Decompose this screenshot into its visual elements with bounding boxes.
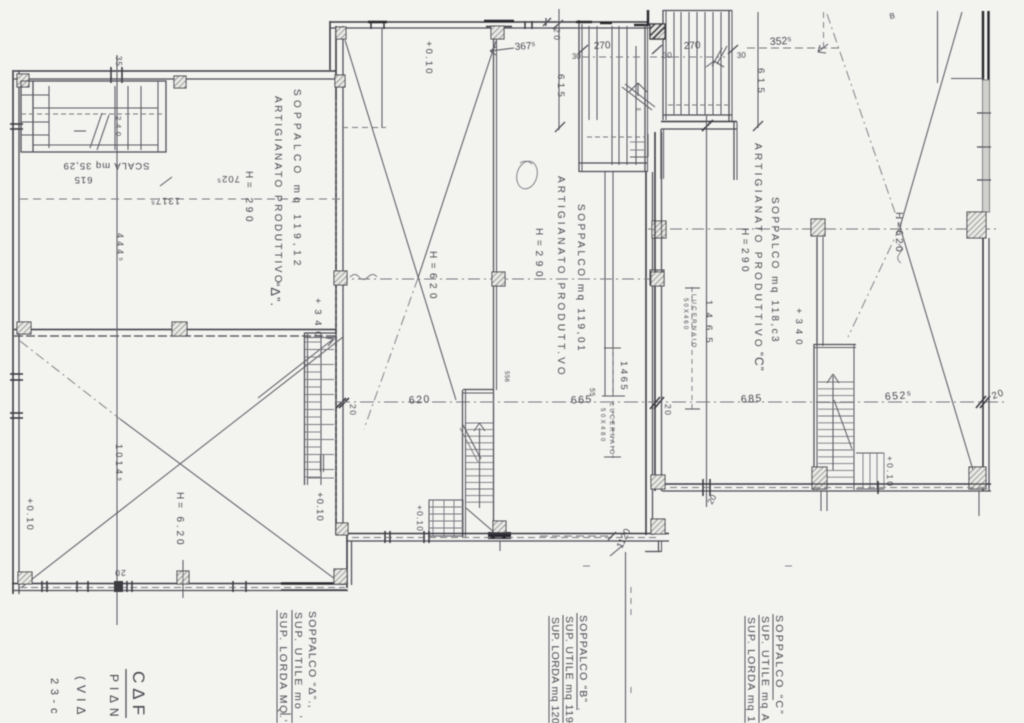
block A right wall lower jog	[346, 535, 348, 588]
dim dashes left of B bottom corner	[540, 535, 612, 537]
svg-text:620: 620	[409, 393, 432, 406]
column C stair bottom	[812, 467, 827, 489]
tick B bottom wall x425	[423, 531, 425, 543]
svg-text:30: 30	[663, 51, 673, 60]
faint scan marks	[583, 565, 590, 567]
main horizontal line y279 block B	[336, 278, 664, 280]
svg-text:SUP. UTILE mo ’: SUP. UTILE mo ’	[292, 612, 304, 719]
column y228 x811	[811, 219, 825, 236]
svg-text:270: 270	[684, 40, 702, 52]
svg-text:“Δ”.: “Δ”.	[268, 282, 283, 307]
main dashed line y228 block C	[648, 228, 997, 230]
svg-text:H=620: H=620	[427, 251, 438, 300]
svg-text:+0.10: +0.10	[24, 498, 35, 531]
stair room inner lines	[32, 81, 34, 152]
block C stair diagonal	[834, 400, 852, 449]
block B stair shaft	[462, 390, 464, 537]
block B stair break diagonal	[463, 425, 481, 459]
column B bottom-left	[336, 523, 348, 535]
block C top marks	[937, 11, 939, 83]
svg-text:55: 55	[588, 388, 595, 397]
block B stair lower flight	[429, 500, 463, 536]
column A top-left corner	[17, 74, 29, 87]
tick on B top wall x525	[524, 21, 526, 29]
column A mid-center	[172, 322, 187, 336]
svg-text:H=290: H=290	[739, 228, 750, 273]
svg-text:SUP. UTILE mq 119: SUP. UTILE mq 119	[563, 616, 575, 723]
block A mid wall (soppalco edge)	[14, 329, 336, 331]
dim dashed line y199 block A	[20, 198, 343, 200]
column C left wall y279	[651, 272, 664, 286]
svg-text:H= 290: H= 290	[243, 171, 254, 223]
block C right wall hatched band	[983, 80, 990, 212]
column A mid-left	[17, 322, 31, 334]
block A bottom wall	[12, 583, 348, 585]
dash vertical x823 top	[823, 12, 825, 48]
stairwell 1 direction arrow	[629, 83, 638, 92]
svg-text:SOPPALCO “C”: SOPPALCO “C”	[773, 615, 785, 715]
lucernaio C bracket	[691, 287, 693, 410]
svg-text:+0.10: +0.10	[885, 456, 895, 487]
svg-text:20: 20	[348, 404, 358, 416]
svg-text:270: 270	[594, 40, 612, 52]
stub below wall x500	[499, 541, 501, 551]
tick at C right wall y402	[976, 396, 986, 408]
stair room top-left outer rect	[21, 81, 166, 152]
svg-text:+0.10: +0.10	[423, 41, 434, 75]
block A diagonal cross lower half	[22, 337, 343, 587]
stairwell 1 dashed lines	[582, 56, 672, 58]
svg-text:652⁵: 652⁵	[884, 389, 913, 403]
svg-text:20: 20	[663, 404, 673, 416]
block B bottom wall	[346, 533, 669, 535]
block A / B shared right wall	[335, 26, 337, 535]
svg-text:20: 20	[552, 28, 562, 41]
column A bottom T center	[177, 571, 189, 584]
stairwell 2 bottom wall	[661, 121, 737, 123]
svg-text:SUP. LORDA mq 120: SUP. LORDA mq 120	[549, 617, 561, 723]
block C diagonal cross	[900, 12, 962, 227]
block A top wall	[14, 70, 336, 72]
svg-text:CΔF: CΔF	[129, 671, 148, 717]
svg-text:615: 615	[555, 74, 566, 98]
pencil oval scribble	[514, 159, 541, 191]
block C right wall dark top	[982, 11, 984, 80]
column A bottom-left corner	[18, 572, 32, 584]
block C left wall	[654, 132, 656, 491]
block C stair	[814, 344, 856, 346]
stair room hatch marks	[90, 113, 102, 148]
svg-text:SCALA mq 35,29: SCALA mq 35,29	[63, 160, 150, 171]
svg-text:H=290: H=290	[533, 228, 544, 278]
svg-text:ARTIGIANATO PRODUTTIVO: ARTIGIANATO PRODUTTIVO	[272, 96, 283, 284]
svg-text:SUP. LORDA MQ.’: SUP. LORDA MQ.’	[277, 612, 289, 723]
svg-text:ARTIGIANATO PRODUTTIVO: ARTIGIANATO PRODUTTIVO	[752, 143, 763, 348]
svg-text:240: 240	[114, 116, 123, 137]
long interior vertical x707	[706, 115, 708, 507]
lucernaio B bracket	[612, 347, 614, 458]
svg-text:615: 615	[74, 174, 93, 185]
dark tick at x117 bottom	[114, 581, 123, 592]
stair room left shelf lines	[21, 94, 49, 96]
svg-text:ⁿⁿ: ⁿⁿ	[636, 107, 642, 114]
block C stair side steps	[856, 452, 884, 454]
svg-text:SUP. UTILE mq A: SUP. UTILE mq A	[759, 616, 771, 722]
column y228 at B/C wall	[652, 221, 666, 238]
svg-text:352⁵: 352⁵	[770, 35, 792, 48]
svg-text:PIΔN: PIΔN	[107, 674, 121, 718]
column dark hatched between stairwells	[650, 24, 665, 39]
block A stair arrow diagonal	[258, 340, 332, 398]
dim line y402 dash-dot across	[336, 401, 1008, 403]
dim line x560 with 615	[558, 9, 560, 130]
vertical from top wall x382	[381, 28, 383, 128]
block C spur wall above stair	[816, 237, 818, 346]
column A bottom-right corner	[334, 569, 347, 584]
svg-text:+0.10: +0.10	[314, 492, 325, 522]
svg-text:SOPPALCO “B” ˌ: SOPPALCO “B” ˌ	[577, 615, 589, 712]
svg-text:LUCERNAIO: LUCERNAIO	[608, 403, 614, 455]
stairwell 2 outer	[663, 10, 732, 12]
tick and 20 at B right wall y402	[650, 397, 660, 409]
svg-text:+0.10: +0.10	[415, 505, 425, 532]
column A top-center	[174, 76, 186, 88]
block B right wall	[645, 172, 647, 535]
svg-text:556: 556	[503, 371, 509, 383]
dim line x758 with 615	[757, 12, 759, 128]
partition x605-613	[604, 172, 606, 396]
svg-text:LUCERNAIO: LUCERNAIO	[690, 294, 696, 348]
svg-text:SOPPALCO mq 119,01: SOPPALCO mq 119,01	[575, 204, 586, 352]
stairwell 2 hatch slashes	[712, 48, 722, 66]
block A left wall	[12, 70, 14, 594]
column C bottom at B wall	[651, 475, 665, 489]
svg-text:1465: 1465	[618, 361, 629, 391]
thin vertical line x625 lower	[625, 552, 627, 723]
column C right bottom corner	[969, 467, 986, 489]
svg-text:SOPPALCO mq 118,c3: SOPPALCO mq 118,c3	[769, 197, 780, 343]
svg-text:702⁵: 702⁵	[216, 173, 240, 184]
svg-text:SUP. LORDA mq 1: SUP. LORDA mq 1	[745, 617, 757, 723]
svg-text:SOPPALCO “Δ”.,: SOPPALCO “Δ”.,	[306, 611, 318, 709]
stairwell 1 right wall	[644, 24, 646, 172]
svg-text:30: 30	[737, 51, 747, 60]
column on y279 at B left wall	[334, 271, 347, 285]
column B top-right T with cap	[484, 20, 514, 22]
svg-text:ARTIGIANATO PRODUTT.VO: ARTIGIANATO PRODUTT.VO	[555, 176, 566, 376]
squiggle on y279	[350, 275, 377, 280]
svg-text:1317⁵: 1317⁵	[150, 195, 180, 206]
column C right y228	[967, 212, 986, 238]
stairwell 1 treads	[588, 26, 590, 120]
tick on B top wall x370	[370, 21, 372, 29]
svg-text:20: 20	[114, 568, 125, 578]
block A stair lower double treads	[320, 455, 322, 472]
stairwell 2 arrow mark	[706, 61, 714, 67]
block C stair arrow	[832, 376, 834, 470]
block A bottom wall ticks	[41, 581, 43, 592]
svg-text:367⁵: 367⁵	[514, 41, 536, 53]
tick C bottom x880	[877, 481, 879, 494]
B bottom-right corner stub	[658, 541, 660, 552]
svg-text:685: 685	[741, 392, 764, 405]
column B top-left	[336, 27, 346, 39]
stairwell 1 dark corner caps	[576, 21, 592, 23]
svg-text:1014⁵: 1014⁵	[114, 444, 124, 482]
block A left wall ticks	[10, 123, 23, 125]
ticks C bottom wall	[702, 479, 704, 496]
dim tick 20 at A right wall y402	[336, 398, 346, 408]
block A bottom wall dark segment	[281, 582, 347, 584]
column on y279 at x494	[492, 272, 505, 286]
block A stair at right wall	[304, 333, 306, 485]
svg-text:H=620: H=620	[893, 212, 904, 253]
block C right wall lower	[982, 238, 984, 491]
block B stair diagonal to column	[466, 508, 495, 533]
block B stair center line and arrow	[479, 428, 481, 508]
column B bottom-right corner	[651, 519, 665, 534]
column at B stair bottom	[493, 521, 506, 533]
tick B bottom wall x386	[384, 531, 386, 543]
dark bar B stair bottom	[488, 532, 511, 539]
column B left at A junction	[335, 75, 345, 87]
svg-text:“C”: “C”	[752, 352, 766, 372]
C bottom wall stubs below	[820, 491, 822, 511]
section line x117 vertical	[116, 55, 118, 625]
steps near B right wall top	[647, 134, 649, 157]
svg-text:615: 615	[755, 68, 766, 94]
svg-text:50X460: 50X460	[682, 298, 688, 330]
block C bottom wall	[662, 483, 991, 485]
block B stair treads	[466, 422, 493, 424]
tick on B top wall x547	[545, 18, 547, 26]
block B top wall	[330, 21, 649, 23]
block B diagonal cross	[345, 40, 456, 400]
stairwell 1 left wall	[578, 20, 580, 172]
partition below top-right column	[493, 39, 495, 536]
block B top-left corner	[329, 21, 331, 70]
stairwell 2 lower stubs	[660, 129, 662, 179]
svg-text:35: 35	[114, 56, 123, 67]
column A top tick at x117	[110, 67, 112, 83]
column on y279 at B right wall	[650, 270, 664, 285]
stairwell 1 bottom	[579, 162, 647, 164]
stairwell 2 treads	[673, 12, 675, 115]
